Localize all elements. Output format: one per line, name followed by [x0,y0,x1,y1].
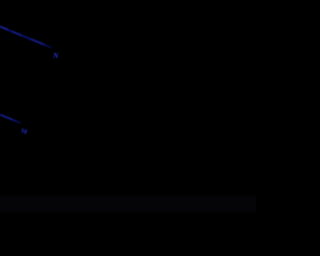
wire: annotation ray 2 [0,114,21,124]
svg-text:Ig: Ig [20,128,28,135]
faint horizon band [0,194,256,214]
wire: annotation ray 1 [0,25,52,47]
svg-text:N: N [52,51,59,60]
